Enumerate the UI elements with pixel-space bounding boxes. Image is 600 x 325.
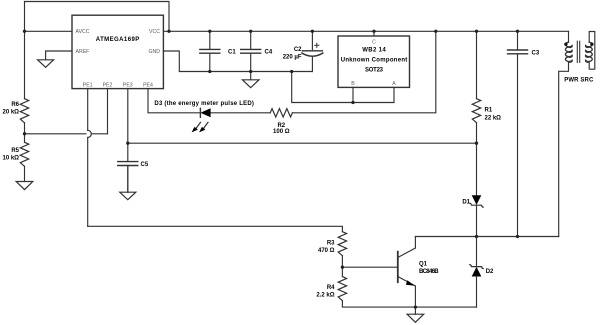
wire: VCC rail bbox=[163, 30, 568, 32]
svg-text:ATMEGA169P: ATMEGA169P bbox=[96, 37, 140, 43]
svg-text:A: A bbox=[392, 81, 396, 87]
wire: R6 to R5 segment bbox=[24, 123, 26, 143]
svg-text:B: B bbox=[351, 81, 355, 87]
wire: base wire R3/R4 junction to Q1 bbox=[342, 266, 397, 268]
wire: AREF pin to ground bbox=[46, 51, 72, 60]
junction: VCC rail / R2 branch bbox=[434, 30, 437, 33]
junction: WB2 pin B node bbox=[351, 101, 354, 104]
junction: GND rail / WB2 branch bbox=[290, 70, 293, 73]
svg-text:C5: C5 bbox=[141, 162, 149, 168]
capacitor C5 bbox=[118, 89, 138, 193]
wire: top bypass AVCC to VCC rail bbox=[25, 2, 170, 32]
wire: PE1 column with hop over PE2 wire bbox=[87, 89, 89, 131]
svg-text:22 kΩ: 22 kΩ bbox=[485, 116, 502, 122]
svg-text:Q1: Q1 bbox=[419, 262, 428, 268]
svg-text:SOT23: SOT23 bbox=[365, 67, 384, 73]
svg-text:2.2 kΩ: 2.2 kΩ bbox=[316, 292, 334, 298]
ground: C4 bbox=[242, 80, 259, 88]
IC WB2 14 Unknown Component SOT23 bbox=[338, 36, 410, 87]
junction: VCC rail / WB2 pin C bbox=[372, 30, 375, 33]
svg-text:C: C bbox=[372, 39, 376, 45]
svg-text:Unknown Component: Unknown Component bbox=[341, 58, 408, 64]
resistor R6 (20 kohm) bbox=[20, 99, 28, 123]
ground: C5 bbox=[120, 192, 136, 200]
svg-text:D3 (the energy meter pulse LED: D3 (the energy meter pulse LED) bbox=[154, 101, 254, 107]
wire: R4 to bottom rail bbox=[342, 301, 476, 307]
wire: PE3 junction to R1 column bbox=[128, 142, 477, 144]
wire: Q1 emitter ground stub bbox=[414, 307, 416, 314]
wire: C5 ground stub bbox=[127, 166, 129, 193]
ground: AREF bbox=[38, 60, 54, 68]
wire: WB2 pin C stub bbox=[373, 31, 375, 36]
svg-text:10 kΩ: 10 kΩ bbox=[3, 156, 20, 162]
svg-text:R2: R2 bbox=[277, 123, 285, 129]
junction: VCC rail / top bypass bbox=[167, 30, 170, 33]
resistor R1 (22 kohm) bbox=[472, 99, 480, 123]
junction: VCC rail / C2 bbox=[311, 30, 314, 33]
svg-text:R5: R5 bbox=[11, 148, 19, 154]
capacitor C4 bbox=[241, 31, 261, 71]
wire: C4 ground stub bbox=[250, 72, 252, 80]
svg-text:PE1: PE1 bbox=[83, 82, 93, 88]
junction: GND rail / C1 bbox=[208, 70, 211, 73]
wire: GND pin to cap bottom rail bbox=[163, 51, 312, 72]
svg-text:GND: GND bbox=[148, 49, 160, 55]
svg-text:WB2 14: WB2 14 bbox=[362, 48, 386, 54]
wire: left column top (node to AVCC junction) bbox=[24, 2, 26, 99]
wire: D2 to bottom rail bbox=[476, 277, 478, 308]
svg-text:PWR SRC: PWR SRC bbox=[564, 78, 594, 84]
zener diode D1 bbox=[470, 195, 483, 207]
LED D3 bbox=[192, 108, 211, 132]
wire: PE1 long run to R3 bbox=[88, 226, 343, 231]
junction: R1 / D1 node bbox=[475, 142, 478, 145]
IC chip ATMEGA169P bbox=[72, 15, 163, 88]
capacitor C2 (polarized 220uF) bbox=[302, 31, 323, 71]
svg-text:R3: R3 bbox=[327, 240, 335, 246]
svg-text:VCC: VCC bbox=[149, 29, 160, 35]
junction: VCC rail / C4 bbox=[249, 30, 252, 33]
zener diode D2 bbox=[470, 265, 483, 277]
svg-text:AVCC: AVCC bbox=[76, 29, 90, 35]
junction: R6/R5/PE2 node bbox=[23, 132, 26, 135]
ground: Q1 emitter bbox=[407, 314, 424, 322]
ground: R5 bbox=[16, 182, 33, 190]
svg-text:BC846B: BC846B bbox=[419, 269, 439, 275]
resistor R4 (2.2 kohm) bbox=[338, 277, 346, 301]
wire: R5 to ground bbox=[24, 166, 26, 181]
junction: AVCC / R6 node bbox=[23, 30, 26, 33]
wire: VCC rail down right side of WB2 to R2 bbox=[292, 31, 435, 113]
transformer PWR SRC bbox=[564, 31, 595, 69]
junction: collector rail / D1-D2 bbox=[475, 235, 478, 238]
wire: R2 to LED D3 bbox=[211, 112, 271, 114]
wire: R1 to D1 bbox=[476, 123, 478, 196]
wire: AVCC pin to left column bbox=[25, 30, 73, 32]
svg-text:PE4: PE4 bbox=[143, 82, 153, 88]
junction: collector rail / C3 bbox=[516, 235, 519, 238]
svg-text:C1: C1 bbox=[228, 49, 236, 55]
svg-text:AREF: AREF bbox=[76, 49, 90, 55]
wire: LED D3 to PE4 bbox=[148, 89, 200, 113]
resistor R3 (470 ohm) bbox=[338, 232, 346, 256]
svg-text:R4: R4 bbox=[327, 285, 335, 291]
wire: PE2 to R6/R5 junction (with hop gap) bbox=[107, 89, 109, 134]
junction: VCC rail / R1 bbox=[475, 30, 478, 33]
svg-text:PE2: PE2 bbox=[103, 82, 113, 88]
junction: GND rail / C4 bbox=[249, 70, 252, 73]
wire: cap rail down to WB2 B/A pins bbox=[292, 72, 394, 103]
svg-text:C2: C2 bbox=[294, 47, 302, 53]
svg-text:PE3: PE3 bbox=[123, 82, 133, 88]
svg-text:R1: R1 bbox=[485, 107, 493, 113]
svg-text:D2: D2 bbox=[486, 269, 494, 275]
svg-text:R6: R6 bbox=[11, 102, 19, 108]
wire: D1 to collector rail bbox=[476, 205, 478, 236]
svg-text:20 kΩ: 20 kΩ bbox=[3, 109, 20, 115]
transistor Q1 (BC846B NPN) bbox=[398, 237, 416, 308]
junction: VCC rail / C1 bbox=[208, 30, 211, 33]
svg-text:C3: C3 bbox=[532, 50, 540, 56]
resistor R5 (10 kohm) bbox=[20, 142, 28, 166]
wire: transformer primary return bbox=[559, 62, 569, 237]
junction: PE3 / C5 node bbox=[126, 142, 129, 145]
junction: R3/R4/Q1 base node bbox=[341, 266, 344, 269]
svg-text:100 Ω: 100 Ω bbox=[273, 129, 290, 135]
wire: WB2 pin B stub bbox=[352, 87, 354, 102]
svg-text:C4: C4 bbox=[265, 49, 273, 55]
svg-text:470 Ω: 470 Ω bbox=[318, 248, 335, 254]
svg-text:D1: D1 bbox=[462, 200, 470, 206]
junction: emitter ground node bbox=[414, 305, 417, 308]
capacitor C1 bbox=[200, 31, 220, 71]
wire: collector rail bbox=[415, 236, 558, 238]
svg-text:220 µF: 220 µF bbox=[283, 55, 302, 61]
resistor R2 (100 ohm) bbox=[270, 109, 292, 117]
capacitor C3 bbox=[508, 31, 528, 236]
wire: R3 to R4 bbox=[341, 256, 343, 277]
junction: VCC rail / C3 bbox=[516, 30, 519, 33]
wire: collector rail to D2 bbox=[476, 237, 478, 267]
wire: VCC rail to R1 bbox=[476, 31, 478, 98]
